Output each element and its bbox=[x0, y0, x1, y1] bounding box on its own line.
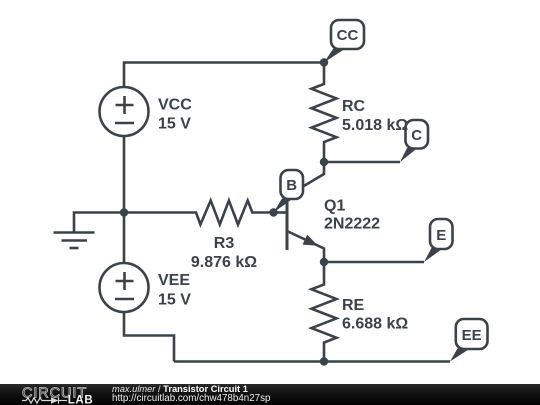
svg-text:http://circuitlab.com/chw478b4: http://circuitlab.com/chw478b4n27sp bbox=[112, 393, 271, 404]
svg-text:RC: RC bbox=[342, 98, 366, 115]
svg-text:E: E bbox=[436, 227, 446, 244]
svg-text:CC: CC bbox=[337, 27, 359, 44]
svg-text:R3: R3 bbox=[214, 235, 235, 252]
svg-text:6.688 kΩ: 6.688 kΩ bbox=[342, 316, 408, 333]
svg-text:VEE: VEE bbox=[158, 272, 190, 289]
svg-text:VCC: VCC bbox=[158, 97, 192, 114]
svg-text:B: B bbox=[286, 177, 297, 194]
svg-text:2N2222: 2N2222 bbox=[324, 216, 380, 233]
svg-text:EE: EE bbox=[462, 327, 482, 344]
svg-text:15 V: 15 V bbox=[158, 116, 191, 133]
svg-text:C: C bbox=[411, 127, 422, 144]
svg-text:9.876 kΩ: 9.876 kΩ bbox=[191, 254, 257, 271]
svg-text:Q1: Q1 bbox=[324, 198, 345, 215]
svg-text:5.018 kΩ: 5.018 kΩ bbox=[342, 117, 408, 134]
svg-text:LAB: LAB bbox=[68, 395, 93, 405]
svg-text:RE: RE bbox=[342, 297, 365, 314]
svg-text:15 V: 15 V bbox=[158, 292, 191, 309]
